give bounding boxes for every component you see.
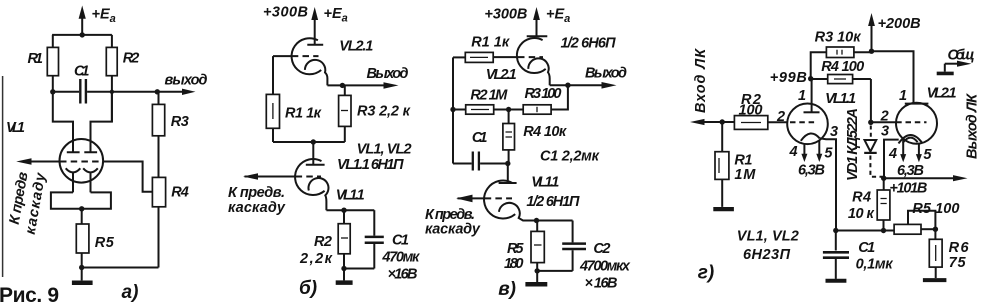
wire bottom [344,268,374,270]
svg-text:C1: C1 [74,64,90,80]
svg-text:R4 10к: R4 10к [523,124,567,140]
wire grid input arrow [243,173,258,180]
power +Ea supply arrow [311,7,318,45]
svg-text:+200В: +200В [878,16,921,32]
svg-text:VL1: VL1 [6,120,25,136]
tube VL2.1 grid [273,55,319,57]
node: R2 bottom junction [110,90,114,94]
svg-text:Общ: Общ [948,48,975,64]
svg-text:6Н23П: 6Н23П [743,247,791,263]
svg-text:б): б) [299,278,317,299]
node: C1 junction [833,228,838,233]
svg-text:+Еа: +Еа [546,7,570,26]
svg-text:+Еа: +Еа [324,6,348,25]
tube VL1 cathodes [66,168,98,172]
resistor R1 [715,122,729,207]
label K predv. kaskadu (rotated) [7,170,50,235]
tube VL2.1 envelope [896,103,937,144]
svg-text:R1 1к: R1 1к [471,34,510,50]
tube VL2.1 anode plate [307,44,323,46]
wire R4 to grid node [870,79,872,122]
tube VL1.1 grid [458,197,513,199]
node: R5 bottom junction [79,265,84,270]
wire anode node [273,141,345,143]
svg-text:1: 1 [798,88,806,104]
resistor R3 [339,85,351,142]
tube VL1 grid [60,161,104,163]
capacitor C2 [562,221,586,271]
node: anode junction [311,139,316,144]
svg-text:C1: C1 [392,233,409,249]
tube VL1.1 envelope [484,181,515,219]
tube VL1.1 anode lead [312,142,314,165]
wire bottom return [82,267,159,269]
wire grid feedback tap [104,162,153,192]
svg-text:в): в) [498,279,516,300]
node: R1 bottom junction [50,89,55,94]
resistor R6 [923,229,947,280]
node: input junction [720,119,725,124]
svg-text:R4 100: R4 100 [821,59,864,75]
svg-text:+300В: +300В [484,7,527,23]
ground [336,269,353,283]
wire bottom [537,270,572,272]
tube VL1.1 anode plate [499,182,517,184]
svg-text:R2 1М: R2 1М [470,88,508,104]
wire pin 3 [884,140,899,179]
wire grid input arrow [456,195,472,203]
tube VL1.1 grid [245,176,322,178]
svg-text:R4: R4 [171,185,189,201]
resistor R5 [531,221,544,271]
node: cathode junction [534,218,539,223]
svg-text:4700мкх: 4700мкх [579,259,631,275]
tube VL1 anode plates [67,151,97,153]
svg-text:0,1мк: 0,1мк [856,257,894,273]
capacitor C1 [365,210,384,268]
resistor R3 [152,92,164,136]
power +Ea supply arrow [79,6,86,35]
wire bottom node [836,230,894,232]
resistor R4 [152,177,165,267]
resistor R5 trimmer [894,211,935,234]
wire R3 to R4 [158,136,160,178]
svg-text:+99В: +99В [770,70,807,86]
node: cathode bus junction [79,206,84,211]
tube VL2.1 grid [493,56,543,58]
svg-text:6,3В: 6,3В [897,163,924,179]
svg-text:каскаду: каскаду [425,222,481,238]
output arrow [602,82,617,89]
node: R4 bottom junction [881,228,886,233]
wire output [327,84,384,86]
svg-text:1: 1 [899,88,907,104]
svg-text:К предв.: К предв. [228,185,285,201]
svg-text:R3 10к: R3 10к [815,30,862,46]
node: anode junction [505,161,510,166]
svg-text:2: 2 [880,109,889,125]
tube VL2.1 cathode [528,58,549,85]
tube VL1.1 anode [804,79,820,113]
svg-text:R2: R2 [123,51,140,67]
tube VL2.1 heater pins [900,139,922,163]
svg-text:г): г) [698,263,714,284]
tube VL1.1 heater pins [801,141,822,163]
svg-text:VL2.1: VL2.1 [339,39,373,55]
svg-text:4: 4 [888,146,897,162]
resistor R4 10k [877,178,890,230]
svg-text:R5: R5 [95,235,115,251]
svg-text:C2: C2 [593,241,610,257]
svg-text:3: 3 [881,124,889,140]
power +Ea supply arrow [533,7,540,36]
node: grid junction [868,120,873,125]
svg-text:C1: C1 [472,130,488,146]
wire grid rail [272,56,274,94]
output arrow [384,82,399,89]
svg-text:C1 2,2мк: C1 2,2мк [540,149,600,165]
svg-text:VL2.1: VL2.1 [927,86,957,102]
tube VL1.1 cathode [308,178,328,210]
svg-text:R6: R6 [949,240,970,256]
tube VL1.1 anode plate [306,164,325,166]
resistor R3 [811,47,872,79]
svg-text:VD1 КД522А: VD1 КД522А [845,108,861,181]
tube VL1.1 envelope [787,104,828,145]
capacitor C1 [80,79,86,104]
svg-text:R4: R4 [852,190,871,206]
svg-text:R3 100: R3 100 [525,86,562,102]
tube VL2.1 cathode [899,135,922,143]
svg-text:Выход ЛК: Выход ЛК [965,93,981,159]
svg-text:Выход: Выход [585,66,627,82]
node: rail junction [450,107,455,112]
tube VL1.1 grid [790,121,818,123]
svg-text:5: 5 [824,146,833,162]
node: top rail junction [80,32,85,37]
svg-text:R1: R1 [734,153,752,169]
svg-text:R3: R3 [171,114,189,130]
svg-text:C1: C1 [858,240,875,256]
tube VL2.1 grid [871,121,927,123]
ground R1 [713,207,734,211]
wire left rail [452,57,454,163]
node: R5 bottom junction [535,268,540,273]
diode VD1 [864,126,882,177]
resistor R2 [734,116,767,130]
resistor R1 [453,52,493,62]
svg-text:+101В: +101В [889,181,927,197]
tube VL1 cathode leads [73,173,91,193]
capacitor C1 [823,231,849,281]
resistor R2 [106,35,117,122]
svg-text:+300В: +300В [263,5,308,21]
svg-text:2,2к: 2,2к [299,251,333,267]
wire top rail [52,34,112,36]
tube VL1.1 anode lead [507,164,509,184]
wire output [550,84,603,86]
svg-text:×16В: ×16В [388,267,418,283]
svg-text:1М: 1М [734,167,756,183]
tube VL2.1 anode plate [905,103,929,105]
tube VL1.1 cathode [801,133,820,140]
svg-text:× 16В: × 16В [585,276,618,292]
svg-text:R5 100: R5 100 [912,201,959,217]
resistor R3 [523,105,551,114]
svg-text:1/2 6Н1П: 1/2 6Н1П [526,194,580,210]
ground [525,271,547,284]
wire grid input with arrow [16,158,60,165]
svg-text:1/2 6Н6П: 1/2 6Н6П [561,36,617,52]
svg-text:R5: R5 [507,241,524,257]
node: +200V junction [869,49,874,54]
wire R2 R3 node [494,109,524,111]
svg-text:4: 4 [789,144,798,160]
resistor R1 [47,35,58,92]
svg-text:каскаду: каскаду [228,200,286,216]
svg-text:VL1.1: VL1.1 [825,91,856,107]
ground [72,268,93,283]
tube VL1 envelope [60,139,104,183]
tube VL2.1 anode plate [527,35,548,37]
svg-text:470мк: 470мк [381,250,420,266]
node: cathode junction [341,208,346,213]
output arrow [884,175,968,181]
svg-text:выход: выход [165,73,208,89]
node: R2 bottom junction [341,266,346,271]
svg-text:VL1, VL2: VL1, VL2 [737,229,799,245]
wire pin 3 [820,138,836,230]
svg-text:6,3В: 6,3В [798,163,825,179]
svg-text:75: 75 [949,255,967,271]
svg-text:2: 2 [776,109,785,125]
svg-text:R1 1к: R1 1к [285,106,322,122]
svg-text:180: 180 [504,256,524,272]
svg-text:VL2.1: VL2.1 [486,67,517,83]
power +200V arrow [868,13,875,51]
svg-text:R3 2,2 к: R3 2,2 к [357,104,411,120]
wire grid VL1.1 [768,121,788,123]
svg-text:Вход ЛК: Вход ЛК [693,48,709,113]
node: output junction [340,83,345,88]
svg-text:R2: R2 [314,234,332,250]
tube VL2.1 envelope [517,38,546,73]
resistor R4 [811,75,871,84]
tube VL2.1 envelope [292,38,322,74]
svg-text:а): а) [122,282,139,303]
tube VL1 anode yoke left [53,92,73,153]
svg-text:Выход: Выход [367,66,409,82]
resistor R1 [266,94,279,142]
svg-text:R1: R1 [28,51,44,67]
svg-text:VL1, VL2: VL1, VL2 [357,142,412,158]
resistor R2 [338,210,350,268]
node: R5 R6 junction [933,227,938,232]
svg-text:VL1.1: VL1.1 [336,188,365,204]
chassis Obshch [937,61,972,74]
svg-text:10 к: 10 к [848,206,875,222]
wire anode to C1 to output [53,91,158,93]
output arrow vyhod [157,89,195,95]
node: +99V junction [808,76,813,81]
svg-text:VL1.1 6Н1П: VL1.1 6Н1П [337,157,404,173]
node: output junction [881,176,886,181]
svg-text:+Еа: +Еа [92,7,116,26]
tube VL1 anode yoke right [91,92,112,153]
svg-text:VL1.1: VL1.1 [531,175,559,191]
wire R3 riser [551,85,568,109]
svg-text:Рис. 9: Рис. 9 [0,284,59,306]
resistor R4 [503,110,515,164]
node: output junction [565,83,570,88]
svg-text:100: 100 [739,103,763,119]
tube VL1.1 envelope [295,159,325,195]
wire cathode node [326,209,374,211]
svg-text:5: 5 [923,147,932,163]
input arrow [690,119,734,125]
wire cathode to C2 [537,220,573,222]
resistor R5 [76,209,89,268]
wire to VL2.1 anode [872,51,914,103]
node: output junction [155,89,160,94]
tube VL1.1 cathode [499,203,537,221]
capacitor C1 [453,152,508,171]
node: divider junction [506,107,511,112]
tube VL1 cathode yoke [51,192,111,208]
tube VL2.1 cathode [305,60,328,86]
svg-text:3: 3 [830,124,838,140]
resistor R2 [453,105,494,114]
scan edge artifact line [2,76,4,277]
